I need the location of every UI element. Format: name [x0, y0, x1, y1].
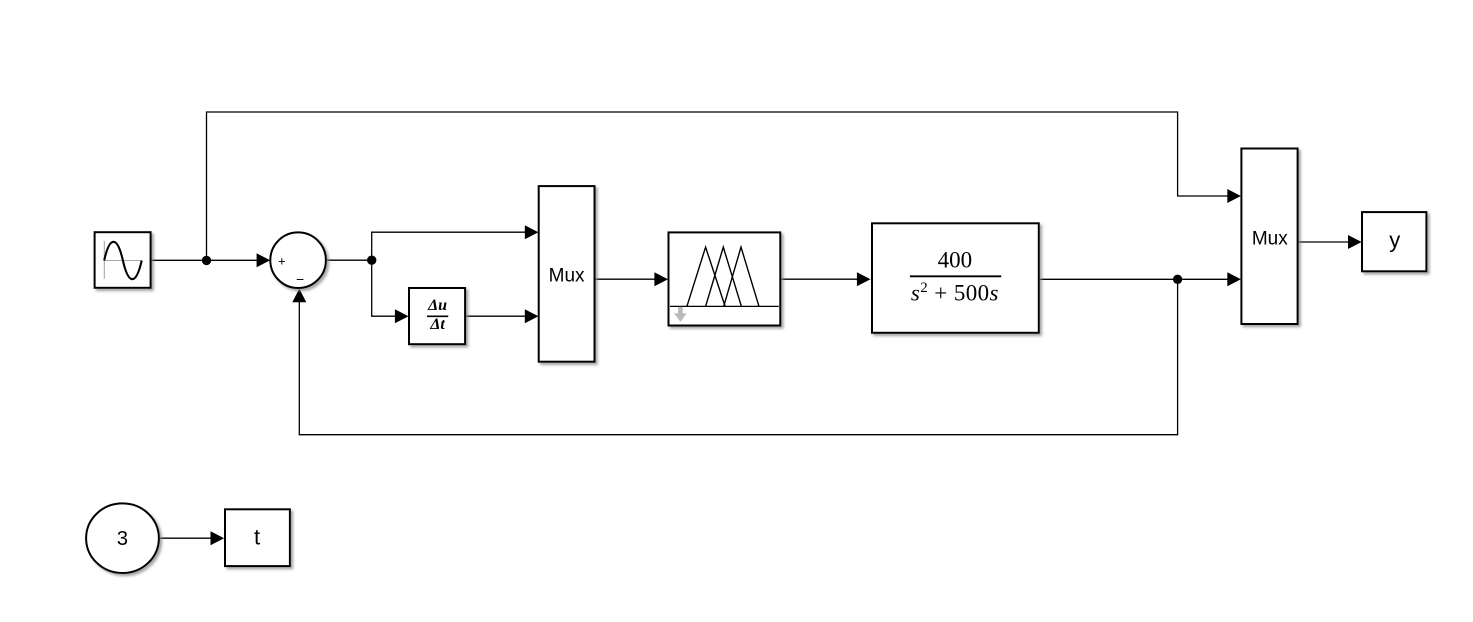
derivative label: [427, 297, 448, 333]
fuzzy membership triangle 1: [687, 247, 725, 306]
svg-text:Mux: Mux: [1252, 229, 1288, 250]
wire: fuzzy controller output to transfer function: [780, 272, 870, 286]
wire: node B up-branch to Mux1 input 1: [372, 225, 539, 260]
wire: Mux2 output to outport y: [1298, 235, 1362, 249]
wire: Mux1 output to fuzzy controller: [595, 272, 669, 286]
constant block 3 (circle): [86, 503, 159, 573]
sine wave source block: [95, 232, 151, 288]
svg-text:−: −: [296, 272, 304, 287]
fuzzy membership baseline: [670, 305, 779, 307]
fuzzy logic controller block: [669, 232, 781, 325]
sine icon curve: [104, 242, 142, 279]
svg-text:y: y: [1389, 228, 1400, 253]
wire: derivative output to Mux1 input 2: [465, 309, 538, 323]
svg-text:3: 3: [117, 528, 128, 550]
block t: [225, 509, 290, 566]
svg-text:Mux: Mux: [549, 265, 585, 286]
wire: node B down-branch to derivative block: [372, 260, 409, 323]
fuzzy gray drop arrow: [674, 307, 687, 322]
transfer function fraction bar: [910, 275, 1001, 277]
Mux2 block: [1241, 149, 1297, 325]
derivative block du/dt: [409, 288, 465, 344]
wire: sine source to sum junction: [151, 253, 271, 267]
svg-text:+: +: [278, 253, 286, 268]
wire: transfer function output to Mux2 input 2: [1039, 272, 1241, 286]
node A: branch dot on source line: [202, 256, 211, 265]
wire: sum output to node B: [326, 259, 372, 261]
fuzzy membership triangle 2: [706, 247, 742, 306]
sum junction (+/-): [270, 232, 326, 288]
Mux1 block: [539, 186, 595, 362]
svg-text:400: 400: [938, 247, 973, 272]
fuzzy membership triangle 3: [724, 247, 759, 306]
outport block y: [1362, 212, 1426, 271]
svg-text:Δt: Δt: [429, 316, 445, 333]
wire: constant 3 to block t: [159, 531, 225, 545]
node B: branch dot after sum: [367, 256, 376, 265]
node C: branch dot on plant output: [1173, 275, 1182, 284]
svg-text:t: t: [254, 524, 260, 549]
sine icon axes: [104, 241, 142, 279]
transfer function block 400/(s^2+500s): [872, 223, 1039, 332]
wire: node A up, across top, down into Mux2 input 1: [207, 112, 1241, 260]
wire: feedback from node C down, left, up into sum minus input: [292, 279, 1177, 434]
svg-text:Δu: Δu: [427, 297, 447, 314]
